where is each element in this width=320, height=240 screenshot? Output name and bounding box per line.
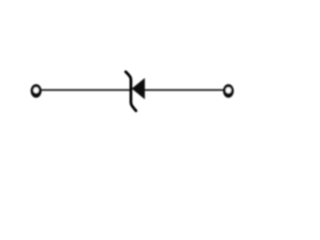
wire (left segment, T1 to cathode bar): [42, 89, 132, 91]
terminal T1 (left open circle): [31, 84, 42, 98]
wire (right segment, anode to T2): [145, 89, 225, 91]
diode D1 cathode bar with bent zener ends: [126, 72, 136, 111]
diode D1 anode triangle (points left): [132, 78, 145, 99]
terminal T2 (right open circle): [223, 84, 234, 98]
